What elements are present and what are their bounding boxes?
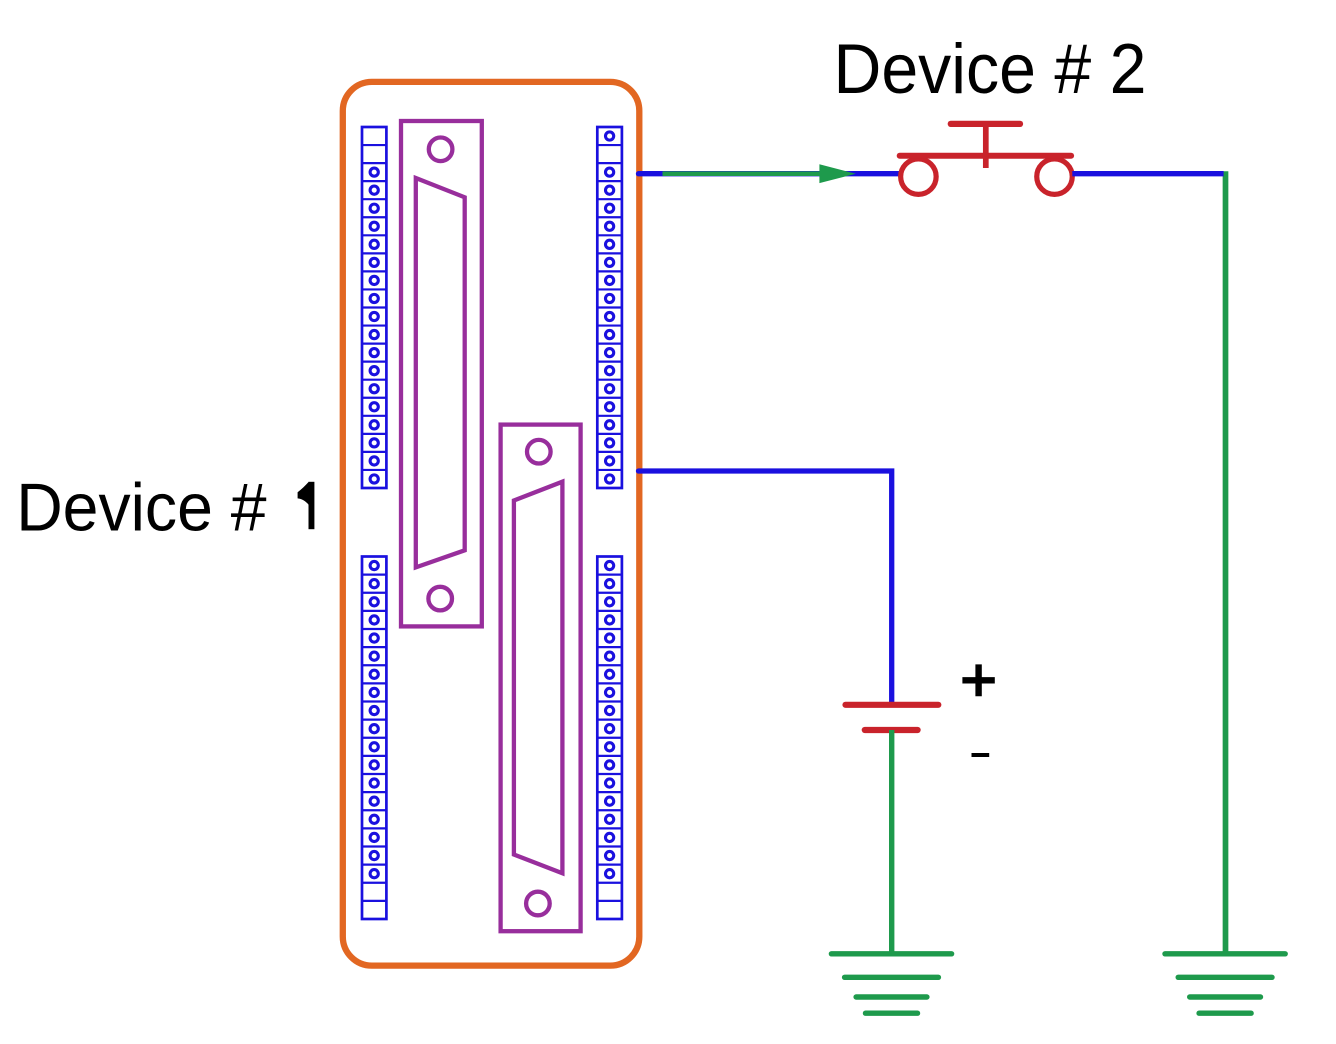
svg-text:Device # 2: Device # 2 <box>834 29 1147 108</box>
svg-text:Device # 1: Device # 1 <box>16 470 320 546</box>
